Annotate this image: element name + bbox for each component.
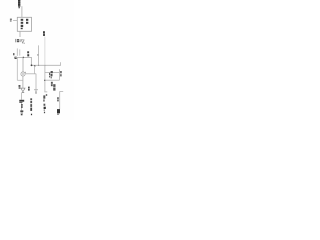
wire net drop x38 to bus	[38, 45, 40, 65]
wire VDD rail horizontal	[15, 56, 32, 58]
net label row1 (vertical text)	[49, 71, 53, 78]
lamp LA1 circle	[21, 72, 25, 76]
connector bracket vertical	[58, 69, 60, 80]
net label column x44	[43, 95, 45, 105]
ground block far right	[57, 109, 60, 113]
capacitor C4 bottom plate	[19, 102, 22, 103]
capacitor C2 left lead wire	[16, 48, 18, 55]
junction dot on VDD rail at lamp branch	[23, 57, 25, 59]
wire 5V net drop to connector rows	[44, 65, 46, 92]
bus junction dot mid	[34, 65, 36, 67]
U1 bottom pin wire	[19, 31, 21, 37]
ground symbol left chain bar 2	[21, 112, 23, 113]
capacitor C4 top plate	[19, 100, 24, 102]
node VDD junction blob	[15, 57, 17, 59]
wire lamp to diode	[22, 76, 24, 88]
diode D2 cathode bar	[22, 92, 25, 94]
ground symbol left chain bar 3	[21, 114, 23, 115]
lamp LA1 cross stroke 1	[22, 73, 25, 76]
wire far right horizontal	[60, 90, 64, 92]
bus junction dot left	[31, 64, 33, 66]
capacitor C2 right lead wire	[19, 49, 21, 55]
ground fade x44	[44, 109, 45, 111]
ground block x44	[44, 107, 46, 109]
wire bus drop to row wire	[34, 66, 36, 74]
wire left branch vertical x17	[16, 58, 18, 80]
wire connector row 2	[45, 79, 60, 81]
polarity mark	[46, 94, 47, 96]
diode D1 (triangle near R5)	[21, 40, 24, 43]
wire elbow at x44 bottom	[44, 91, 47, 93]
bus junction dot at x44	[44, 65, 45, 66]
wire row horizontal at lamp level	[25, 73, 36, 75]
diode D2 label	[19, 85, 21, 89]
connector pin text right	[60, 71, 62, 76]
wire lamp chain upper	[22, 57, 24, 71]
U1 left pin 1 label	[10, 19, 12, 20]
net label 5V at rail	[27, 51, 29, 56]
bus end tick up	[60, 62, 62, 65]
wire drop to arrow	[35, 74, 37, 90]
wire far right vertical	[59, 91, 61, 109]
connector arrow down	[35, 89, 38, 92]
U1 pin name text column right	[26, 19, 28, 24]
net label column bottom middle	[30, 98, 32, 111]
resistor R5 value label	[15, 39, 20, 42]
wire 5V net drop (faint) upper	[44, 37, 46, 66]
ground symbol left chain bar 1	[20, 110, 23, 112]
bus wire horizontal	[31, 64, 61, 66]
wire diode to capacitor C4	[21, 93, 23, 100]
lamp LA1 arrow tick	[25, 72, 26, 73]
capacitor C2 label	[13, 53, 15, 55]
diode D1 tick	[24, 43, 25, 44]
net label 5V (vertical text, mid sheet)	[43, 31, 45, 36]
U1 pin name text column left	[21, 19, 24, 29]
diode D2 triangle	[21, 88, 25, 92]
wire VBAT to U1 top pin	[21, 6, 23, 17]
U1 left pin 1 wire	[13, 20, 17, 22]
capacitor C4 value text	[21, 104, 23, 108]
wire left branch elbow to lamp chain	[17, 79, 23, 81]
connector arrow tip dot	[35, 93, 36, 94]
net label column end dot	[31, 114, 32, 116]
bus junction dot at x38	[38, 65, 39, 66]
wire x38 label tick	[37, 54, 38, 56]
ground block far right fade	[57, 114, 59, 115]
net label VBAT (vertical text at top)	[18, 0, 20, 8]
ic U1 body	[17, 17, 31, 31]
ground dot x44	[44, 112, 45, 114]
far right chain label text	[57, 97, 59, 101]
junction dot row 2	[44, 80, 45, 81]
net label row2 cluster	[51, 82, 56, 91]
diode D2 value text right	[28, 87, 30, 91]
lamp LA1 cross stroke 2	[22, 73, 25, 76]
wire connector row 1	[45, 72, 60, 74]
wire VDD rail drop to bus	[30, 57, 32, 65]
wire capacitor C4 to ground	[21, 103, 23, 110]
